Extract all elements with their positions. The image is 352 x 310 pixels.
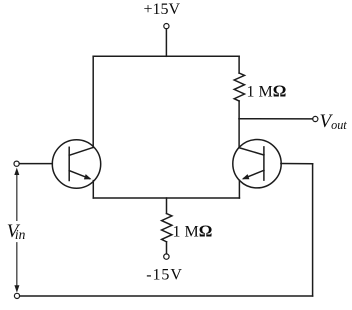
transistor Q2 (right NPN, mirrored) [233, 140, 281, 188]
Q2 envelope circle [233, 140, 281, 188]
Vin measure line (double-headed arrow) [16, 174, 18, 286]
Q2 collector stroke [239, 148, 264, 155]
wire: R1 top lead [238, 56, 240, 73]
terminal: Vout [313, 116, 318, 121]
Q2 emitter arrowhead [242, 174, 250, 179]
Q2 emitter stroke [244, 170, 264, 178]
svg-text:Vout: Vout [320, 111, 348, 132]
Vin arrowhead up [14, 168, 19, 175]
wire: tail tap to R2 [166, 198, 168, 214]
svg-text:1 MΩ: 1 MΩ [173, 221, 213, 240]
resistor R1 [234, 73, 244, 101]
resistor R2 [162, 214, 172, 242]
wire: Q2 base lead [281, 163, 313, 165]
terminal: input top [14, 161, 19, 166]
wire: Vout node to Q2 collector [238, 119, 240, 148]
Q1 emitter arrowhead [84, 174, 92, 179]
Q1 envelope circle [52, 140, 100, 188]
wire: R2 to -15V terminal [166, 242, 168, 254]
wire: Q1 emitter down [92, 181, 94, 198]
wire: right edge return [312, 164, 314, 296]
transistor Q1 (left NPN) [52, 140, 100, 188]
terminal: input bottom [14, 293, 19, 298]
Q1 emitter stroke [69, 171, 89, 179]
wire: top rail [93, 55, 239, 57]
wire: Vout [239, 118, 313, 120]
svg-text:+15V: +15V [144, 1, 181, 18]
wire: bottom return [20, 295, 313, 297]
wire: +15V tap [165, 29, 167, 57]
svg-text:1 MΩ: 1 MΩ [247, 81, 287, 100]
Vin arrowhead down [14, 285, 19, 292]
Q2 base bar [263, 147, 265, 180]
wire: left vertical (Q1 collector) [92, 56, 94, 147]
Q1 collector stroke [69, 147, 93, 155]
Q1 base bar [68, 147, 70, 180]
wire: Q1 base lead [19, 163, 52, 165]
wire: Q2 emitter down [238, 180, 240, 198]
svg-text:Vin: Vin [7, 221, 26, 242]
terminal: +15V [164, 24, 169, 29]
wire: bottom rail (emitter tail) [93, 197, 239, 199]
terminal: -15V [164, 254, 169, 259]
wire: R1 bottom lead to Vout node [238, 101, 240, 119]
svg-text:-15V: -15V [146, 267, 182, 284]
